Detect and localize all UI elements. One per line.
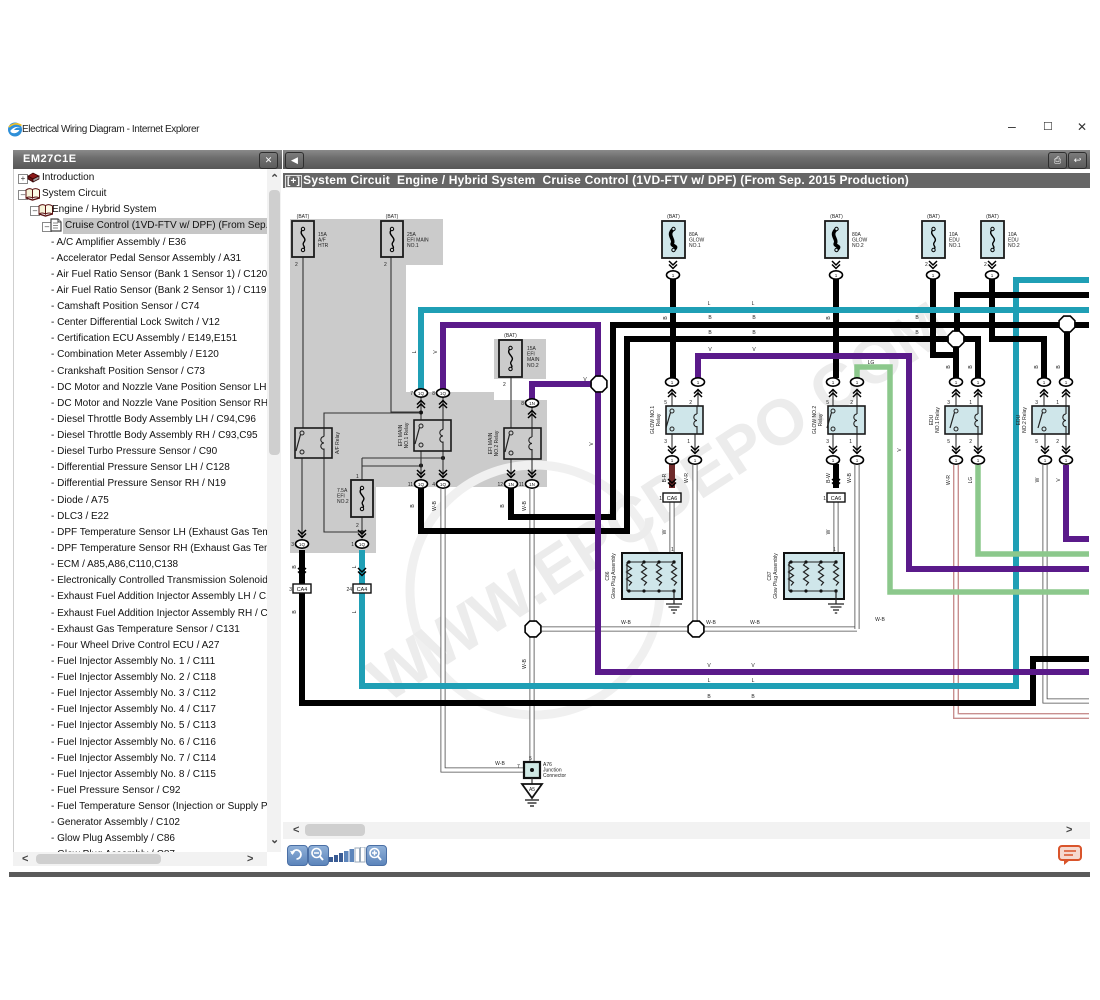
wire B bottom bus: [302, 550, 1089, 703]
node connector 1 at 698,382: [692, 378, 705, 386]
Tree content: [13, 169, 268, 852]
svg-text:B: B: [410, 504, 416, 508]
tree h-scrollbar: [13, 852, 267, 866]
node connector 1N at 511,484: [505, 480, 518, 488]
wire B-R GLOW NO.1 to CA6: [669, 464, 675, 488]
wire 7.5A fuse riser and branches: [361, 458, 363, 480]
wire A/F relay coil bottom to 7.5A fuse output: [324, 458, 361, 532]
svg-text:NO.2: NO.2: [852, 243, 864, 249]
svg-text:1: 1: [1065, 458, 1068, 463]
svg-text:3: 3: [291, 542, 294, 548]
wire W-B from EFI NO.2 relay through junction octagon to A76: [530, 489, 535, 762]
svg-text:V: V: [433, 350, 439, 354]
svg-text:C87: C87: [767, 571, 773, 580]
relay block shaded region: [290, 219, 547, 553]
svg-text:W-B: W-B: [522, 501, 528, 511]
wire EFI NO.1 relay outputs: [420, 451, 422, 477]
svg-text:(BAT): (BAT): [667, 214, 680, 220]
svg-text:1: 1: [671, 547, 674, 553]
svg-text:1Q: 1Q: [359, 542, 366, 547]
svg-text:1: 1: [1044, 458, 1047, 463]
svg-text:1: 1: [856, 458, 859, 463]
svg-text:1: 1: [832, 458, 835, 463]
relay GLOW NO.2 Relay: [812, 406, 865, 435]
svg-text:2: 2: [925, 262, 928, 268]
node connector 1Q at 302,544: [296, 540, 309, 548]
wire V bus to GLOW NO.1 coil and right: [698, 356, 1089, 569]
svg-text:L: L: [352, 610, 358, 613]
node connector 1Q at 421,393: [415, 389, 428, 397]
zoom toolbar: [287, 845, 308, 866]
svg-text:NO.2: NO.2: [337, 499, 349, 505]
wire W from CA6 to C86: [670, 502, 675, 555]
node connector 1 at 857,460: [851, 456, 864, 464]
svg-text:B: B: [751, 694, 755, 700]
svg-text:Relay: Relay: [818, 413, 824, 426]
wire B GLOW NO.1 fuse to relay: [670, 279, 676, 378]
svg-text:B: B: [752, 315, 756, 321]
svg-text:1Q: 1Q: [440, 391, 447, 396]
Diagram title: [283, 173, 1090, 188]
wire fuse EFI MAIN NO.2 to relay: [510, 377, 512, 428]
chevron arrows into connectors: [669, 261, 677, 269]
svg-text:(BAT): (BAT): [504, 333, 517, 339]
svg-text:(BAT): (BAT): [830, 214, 843, 220]
ground below A76: [522, 784, 542, 806]
wire W from EDU NO.2 relay: [1045, 465, 1089, 701]
svg-text:L: L: [708, 678, 711, 684]
svg-text:LG: LG: [868, 360, 875, 366]
glow plug assembly C87: [767, 547, 844, 613]
relay EDU NO.2 Relay: [1016, 406, 1069, 434]
node connector 1 at 956,460: [950, 456, 963, 464]
svg-text:CA6: CA6: [831, 496, 842, 502]
svg-text:B: B: [968, 365, 974, 369]
fuse 10A EDU NO.1: [922, 214, 961, 268]
node junction B far right: [1059, 316, 1075, 332]
node connector 1 at 1044,382: [1038, 378, 1051, 386]
wire B upper right with octagon: [957, 295, 1089, 332]
svg-text:L: L: [352, 565, 358, 568]
svg-text:2: 2: [503, 382, 506, 388]
svg-text:1: 1: [351, 542, 354, 548]
node connector 1 at 672,460: [666, 456, 679, 464]
node connector 1 at 1066,382: [1060, 378, 1073, 386]
svg-text:1: 1: [1043, 380, 1046, 385]
svg-text:(BAT): (BAT): [927, 214, 940, 220]
svg-text:3: 3: [947, 400, 950, 406]
svg-text:(BAT): (BAT): [297, 214, 310, 220]
svg-text:W-B: W-B: [750, 620, 760, 626]
svg-text:11: 11: [408, 482, 413, 488]
svg-text:1: 1: [977, 458, 980, 463]
svg-text:NO.1: NO.1: [407, 243, 419, 249]
svg-text:1: 1: [697, 380, 700, 385]
wire B-W GLOW NO.2 to CA6: [833, 464, 839, 488]
svg-text:(BAT): (BAT): [986, 214, 999, 220]
fuse 80A GLOW NO.2: [825, 214, 868, 258]
wire fuse EFI MAIN NO.1 to junction: [391, 257, 421, 412]
svg-text:1: 1: [356, 474, 359, 480]
svg-text:1: 1: [955, 380, 958, 385]
svg-text:A/F Relay: A/F Relay: [335, 432, 341, 454]
wire B EDU NO.1 fuse jog: [933, 279, 956, 355]
wire B bus2 from EFI NO.1 relay to EDU NO.1: [421, 339, 978, 531]
svg-text:NO.2 Relay: NO.2 Relay: [494, 430, 500, 456]
svg-text:B: B: [663, 316, 669, 320]
svg-text:1: 1: [991, 273, 994, 278]
connector box CA4: [353, 584, 371, 593]
svg-text:4: 4: [432, 482, 435, 488]
node junction W-B right: [688, 621, 704, 637]
svg-text:L: L: [412, 350, 418, 353]
wire junction to EFI MAIN NO.1 relay and oval: [420, 398, 422, 420]
svg-text:1: 1: [671, 458, 674, 463]
node connector 1Q at 362,544: [356, 540, 369, 548]
svg-text:W-B: W-B: [432, 501, 438, 511]
fuse 15A A/F HTR: [292, 214, 329, 268]
connector box CA6: [827, 493, 845, 502]
svg-text:B: B: [752, 330, 756, 336]
svg-text:W-B: W-B: [522, 659, 528, 669]
wire A/F relay switch output: [301, 458, 303, 538]
wire 7.5A fuse bottom: [361, 517, 363, 538]
relay A/F Relay: [295, 428, 341, 458]
node connector 1 at 956,382: [950, 378, 963, 386]
svg-text:1Q: 1Q: [418, 391, 425, 396]
wire LG from GLOW NO.2 coil: [857, 367, 1089, 592]
wire B EDU NO.2 fuse: [992, 279, 1044, 378]
svg-text:1: 1: [694, 458, 697, 463]
node connector 1 at 833,460: [827, 456, 840, 464]
svg-text:3: 3: [1035, 400, 1038, 406]
svg-text:W: W: [662, 529, 668, 534]
svg-text:1: 1: [932, 273, 935, 278]
node connector 1 at 857,382: [851, 378, 864, 386]
svg-text:1: 1: [659, 496, 662, 502]
svg-text:1: 1: [835, 273, 838, 278]
window bottom border: [9, 872, 1090, 877]
svg-text:1Q: 1Q: [418, 482, 425, 487]
svg-text:W: W: [1035, 477, 1041, 482]
svg-text:B: B: [708, 330, 712, 336]
wire oval to EFI NO.1 coil: [442, 398, 444, 420]
svg-text:2: 2: [1056, 439, 1059, 445]
svg-text:1: 1: [823, 496, 826, 502]
svg-text:1Q: 1Q: [299, 542, 306, 547]
wire B bus1 from EFI NO.2 relay: [511, 325, 1089, 517]
svg-text:7: 7: [517, 764, 520, 770]
wire W-B horizontal between octagons: [533, 627, 857, 632]
wire W-R from EDU NO.1 relay: [956, 465, 1089, 716]
svg-text:V: V: [897, 448, 903, 452]
connector box CA4: [293, 584, 311, 593]
svg-text:NO.1 Relay: NO.1 Relay: [935, 407, 941, 433]
svg-text:B-W: B-W: [826, 473, 832, 483]
svg-text:B: B: [946, 365, 952, 369]
wire L upper bus: [421, 310, 1089, 392]
svg-text:V: V: [1056, 478, 1062, 482]
DIAGRAM SVG placeholder: [283, 188, 1090, 822]
node connector 1Q at 443,484: [437, 480, 450, 488]
svg-text:Relay: Relay: [656, 413, 662, 426]
glow plug assembly C86: [605, 547, 682, 613]
relay GLOW NO.1 Relay: [650, 406, 703, 435]
wire EFI NO.2 relay outputs: [510, 459, 512, 477]
svg-text:NO.2 Relay: NO.2 Relay: [1022, 407, 1028, 433]
node connector 1Q at 443,393: [437, 389, 450, 397]
svg-text:B-R: B-R: [662, 473, 668, 482]
svg-text:B: B: [292, 610, 298, 614]
svg-text:1: 1: [856, 380, 859, 385]
wire fuse A/F HTR to A/F relay: [302, 257, 304, 428]
svg-text:1: 1: [832, 380, 835, 385]
svg-text:1: 1: [1065, 380, 1068, 385]
svg-text:1: 1: [969, 400, 972, 406]
svg-text:NO.1: NO.1: [949, 243, 961, 249]
wire W-B from EFI NO.1 relay to A76 junction: [443, 489, 526, 770]
svg-text:V: V: [707, 663, 711, 669]
wire V branch octagon to EFI NO.2 coil: [532, 384, 598, 400]
node junction B right: [948, 331, 964, 347]
wire W-R from GLOW NO.1 relay down: [693, 465, 698, 629]
svg-text:5: 5: [1035, 439, 1038, 445]
node connector 1 at 933,275: [927, 271, 940, 279]
svg-text:HTR: HTR: [318, 243, 329, 249]
node connector 1 at 978,382: [972, 378, 985, 386]
svg-text:3: 3: [289, 587, 292, 593]
svg-text:12: 12: [497, 482, 503, 488]
tree v-scrollbar: [267, 169, 281, 852]
svg-text:1: 1: [977, 380, 980, 385]
svg-text:5: 5: [529, 756, 532, 762]
svg-text:1: 1: [849, 439, 852, 445]
svg-text:V: V: [751, 663, 755, 669]
svg-text:NO.2: NO.2: [1008, 243, 1020, 249]
node connector 1 at 673,275: [667, 271, 680, 279]
CA6 chevrons: [668, 479, 676, 487]
svg-text:B: B: [1056, 365, 1062, 369]
svg-text:2: 2: [356, 523, 359, 529]
node connector 1 at 978,460: [972, 456, 985, 464]
Tree header: [13, 150, 282, 169]
node connector 1 at 1066,460: [1060, 456, 1073, 464]
svg-text:CA4: CA4: [297, 587, 308, 593]
node connector 1 at 992,275: [986, 271, 999, 279]
svg-text:1: 1: [672, 273, 675, 278]
wire B octagon to EDU NO.2 pin1: [1064, 331, 1070, 378]
node connector 1 at 1045,460: [1039, 456, 1052, 464]
svg-text:1N: 1N: [508, 482, 514, 487]
connector box CA6: [663, 493, 681, 502]
svg-text:V: V: [589, 442, 595, 446]
svg-text:B: B: [1034, 365, 1040, 369]
svg-text:2: 2: [984, 262, 987, 268]
svg-text:Connector: Connector: [543, 773, 566, 779]
wire LG from EDU NO.1 relay: [978, 465, 1089, 554]
svg-text:W: W: [826, 529, 832, 534]
relay EFI MAIN NO.1 Relay: [398, 420, 451, 451]
Window title bar: [0, 115, 1100, 145]
svg-text:W-B: W-B: [706, 620, 716, 626]
svg-text:B: B: [708, 315, 712, 321]
svg-text:W-B: W-B: [495, 761, 505, 767]
svg-text:1N: 1N: [529, 401, 535, 406]
junction connector A76: [517, 756, 566, 784]
node junction W-B left: [525, 621, 541, 637]
fuse 80A GLOW NO.1: [662, 214, 705, 258]
svg-text:CA4: CA4: [357, 587, 368, 593]
svg-text:2: 2: [295, 262, 298, 268]
svg-text:B: B: [707, 694, 711, 700]
fuse 15A EFI MAIN NO.2: [499, 333, 540, 388]
svg-text:LG: LG: [968, 477, 974, 484]
svg-text:3: 3: [826, 439, 829, 445]
wire W from CA6 to C87: [834, 502, 839, 555]
svg-text:2: 2: [689, 400, 692, 406]
svg-text:W-B: W-B: [847, 473, 853, 483]
node connector 1 at 833,382: [827, 378, 840, 386]
svg-text:1: 1: [671, 380, 674, 385]
watermark: [410, 465, 660, 715]
svg-text:L: L: [708, 301, 711, 307]
node connector 1 at 695,460: [689, 456, 702, 464]
fuse 25A EFI MAIN NO.1: [381, 214, 429, 268]
svg-text:1N: 1N: [529, 482, 535, 487]
svg-text:L: L: [752, 678, 755, 684]
svg-text:2: 2: [969, 439, 972, 445]
svg-text:L: L: [752, 301, 755, 307]
svg-text:Glow Plug Assembly: Glow Plug Assembly: [773, 553, 779, 599]
svg-text:W-B: W-B: [621, 620, 631, 626]
svg-text:W-B: W-B: [875, 617, 885, 623]
svg-text:11: 11: [519, 482, 524, 488]
diagram h-scrollbar: [283, 822, 1090, 839]
node connector 1Q at 421,484: [415, 480, 428, 488]
fuse 10A EDU NO.2: [981, 214, 1020, 268]
svg-text:CA6: CA6: [667, 496, 678, 502]
wire L bottom bus up right side: [362, 280, 1089, 686]
svg-text:1: 1: [687, 439, 690, 445]
svg-text:1Q: 1Q: [440, 482, 447, 487]
svg-text:1: 1: [833, 547, 836, 553]
svg-text:W-R: W-R: [946, 475, 952, 485]
wire V from EDU NO.2 relay: [1066, 465, 1089, 539]
relay pin stubs GLOW/EDU: [671, 389, 673, 406]
wire W-B from GLOW NO.2 relay down: [855, 465, 860, 629]
svg-text:8: 8: [521, 401, 524, 407]
svg-text:V: V: [752, 347, 756, 353]
relay EDU NO.1 Relay: [929, 406, 982, 434]
svg-text:B: B: [500, 504, 506, 508]
relay EFI MAIN NO.2 Relay: [488, 428, 541, 459]
svg-text:(BAT): (BAT): [386, 214, 399, 220]
svg-text:5: 5: [664, 400, 667, 406]
svg-text:A5: A5: [529, 787, 535, 793]
fuse 7.5A EFI NO.2: [351, 474, 373, 529]
svg-text:W-R: W-R: [684, 473, 690, 483]
CA4 chevrons: [298, 568, 306, 576]
svg-text:5: 5: [826, 400, 829, 406]
svg-text:V: V: [708, 347, 712, 353]
node connector 1N at 532,484: [526, 480, 539, 488]
svg-text:8: 8: [432, 391, 435, 397]
svg-text:C86: C86: [605, 571, 611, 580]
node connector 1 at 836,275: [830, 271, 843, 279]
svg-text:1: 1: [1056, 400, 1059, 406]
comment icon bottom right: [1058, 845, 1084, 867]
svg-text:NO.1: NO.1: [689, 243, 701, 249]
svg-text:B: B: [292, 565, 298, 569]
svg-text:5: 5: [947, 439, 950, 445]
node connector 1 at 672,382: [666, 378, 679, 386]
Diagram toolbar: [283, 150, 1090, 169]
svg-text:2: 2: [384, 262, 387, 268]
svg-text:3: 3: [664, 439, 667, 445]
svg-text:24: 24: [346, 587, 352, 593]
svg-text:2: 2: [850, 400, 853, 406]
svg-text:NO.2: NO.2: [527, 363, 539, 369]
svg-text:Glow Plug Assembly: Glow Plug Assembly: [611, 553, 617, 599]
node connector 1N at 532,403: [526, 399, 539, 407]
svg-text:7: 7: [410, 391, 413, 397]
svg-text:1: 1: [955, 458, 958, 463]
wire A/F relay coil top: [324, 413, 420, 428]
svg-text:B: B: [826, 316, 832, 320]
wire B GLOW NO.2 fuse to relay: [833, 279, 839, 378]
svg-text:NO.1 Relay: NO.1 Relay: [404, 422, 410, 448]
wire oval 1N to EFI NO.2 coil: [531, 407, 533, 428]
wire V main from EFI NO.1 coil oval: [443, 325, 1089, 672]
